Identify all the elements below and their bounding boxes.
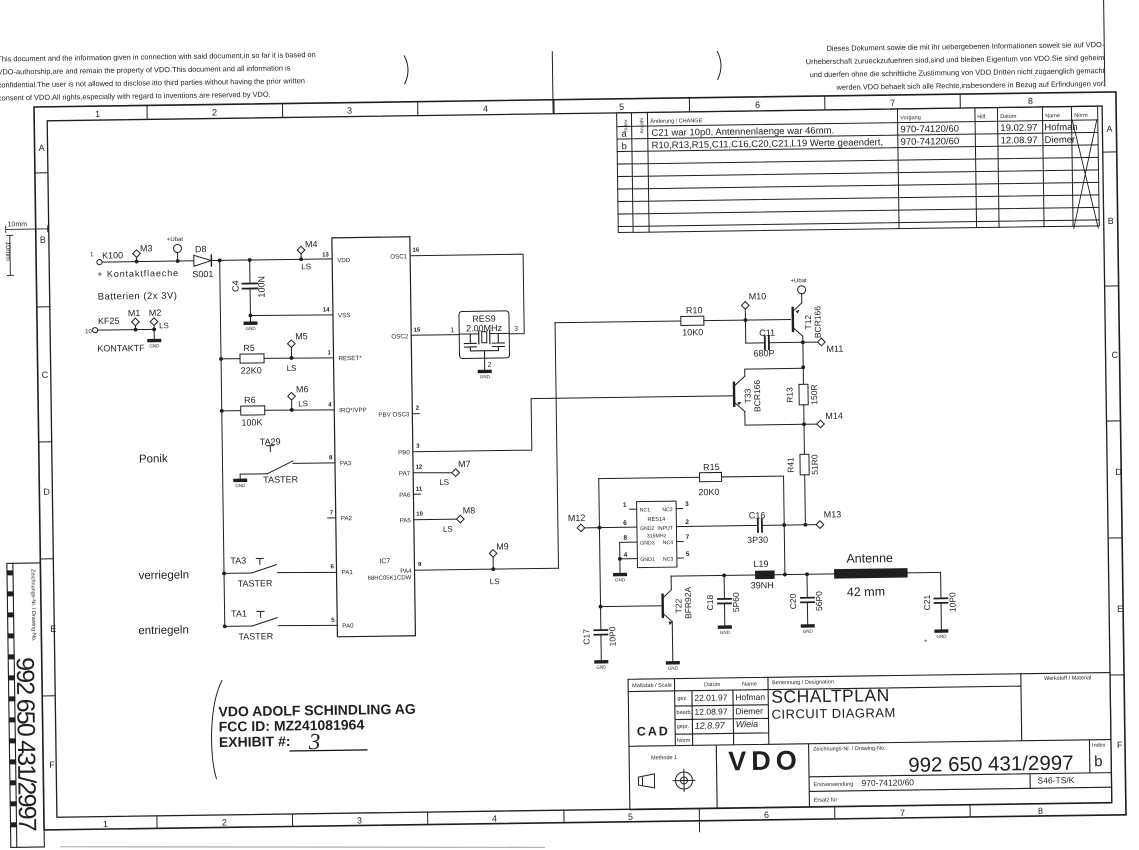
svg-text:R10,R13,R15,C11,C16,C20,C21,L1: R10,R13,R15,C11,C16,C20,C21,L19 Werte ge… — [652, 137, 884, 151]
svg-text:VSS: VSS — [338, 312, 350, 319]
REVISION TABLE — [617, 106, 1100, 235]
svg-text:R6: R6 — [244, 395, 256, 405]
test point M5 — [286, 331, 308, 373]
wire R10/PA4 riser — [555, 323, 558, 568]
svg-text:gepr.: gepr. — [677, 724, 690, 730]
registration mark right — [717, 51, 721, 79]
svg-text:Hofman: Hofman — [1044, 122, 1077, 133]
svg-text:Index: Index — [1092, 743, 1106, 749]
svg-text:GND: GND — [936, 634, 947, 639]
svg-text:3: 3 — [685, 501, 689, 508]
svg-text:IRQ*/VPP: IRQ*/VPP — [339, 407, 367, 414]
wire PB0 to T33 base — [412, 396, 730, 452]
svg-text:VDO: VDO — [728, 745, 802, 776]
svg-text:M6: M6 — [296, 384, 309, 394]
capacitor C16 — [676, 510, 816, 546]
svg-text:LS: LS — [301, 262, 311, 271]
capacitor C18 — [705, 573, 742, 625]
svg-text:TA1: TA1 — [231, 609, 247, 619]
svg-text:15: 15 — [414, 328, 421, 334]
fold mark top center — [551, 52, 554, 114]
svg-text:6: 6 — [330, 564, 334, 570]
svg-text:TA29: TA29 — [260, 437, 281, 447]
svg-text:SCHALTPLAN: SCHALTPLAN — [771, 685, 890, 707]
svg-text:1: 1 — [90, 252, 94, 258]
fold mark top right — [1104, 0, 1105, 86]
svg-text:3: 3 — [514, 326, 518, 333]
ground T22 — [666, 661, 680, 671]
svg-text:PA7: PA7 — [399, 470, 411, 477]
svg-text:LS: LS — [298, 399, 308, 408]
svg-text:10mm: 10mm — [8, 221, 28, 228]
svg-text:2: 2 — [416, 406, 420, 412]
svg-text:E: E — [1117, 604, 1123, 614]
svg-text:3P30: 3P30 — [747, 535, 768, 545]
test point M1 — [128, 308, 141, 332]
svg-text:Maßstab / Scale: Maßstab / Scale — [632, 683, 672, 690]
LEFT STRIP — [7, 563, 44, 847]
svg-text:Batterien (2x 3V): Batterien (2x 3V) — [98, 291, 178, 303]
svg-text:CIRCUIT DIAGRAM: CIRCUIT DIAGRAM — [771, 705, 895, 722]
svg-text:Zeichnungs-Nr. / Drawing-No.: Zeichnungs-Nr. / Drawing-No. — [813, 746, 886, 753]
svg-text:3: 3 — [357, 815, 362, 825]
svg-text:6: 6 — [623, 520, 627, 527]
svg-text:8: 8 — [329, 455, 333, 461]
svg-text:und duerfen ohne die schriftli: und duerfen ohne die schriftliche Zustim… — [810, 66, 1105, 79]
svg-text:Diemer: Diemer — [1044, 134, 1075, 145]
svg-text:M9: M9 — [496, 541, 509, 551]
svg-text:GND: GND — [596, 665, 607, 670]
svg-text:4: 4 — [624, 552, 628, 559]
svg-text:Ersatz für: Ersatz für — [814, 797, 838, 803]
svg-text:TASTER: TASTER — [238, 578, 273, 588]
svg-text:12.08.97: 12.08.97 — [1000, 135, 1037, 147]
test point M9 — [489, 541, 509, 586]
svg-text:10mm: 10mm — [4, 241, 11, 261]
svg-text:verriegeln: verriegeln — [138, 569, 189, 582]
svg-text:A: A — [1106, 124, 1112, 134]
svg-text:2: 2 — [685, 519, 689, 526]
svg-text:GND: GND — [235, 483, 246, 488]
svg-text:56P0: 56P0 — [814, 591, 824, 611]
svg-text:GND: GND — [149, 343, 160, 348]
svg-text:4: 4 — [483, 104, 488, 114]
svg-text:L19: L19 — [753, 559, 768, 569]
svg-text:LS: LS — [287, 364, 297, 373]
+Ubat T12 — [790, 278, 807, 294]
wire VDD net top — [102, 259, 332, 262]
svg-text:10P0: 10P0 — [947, 592, 957, 612]
svg-text:20K0: 20K0 — [698, 487, 719, 497]
10mm scale legend — [6, 226, 49, 276]
svg-text:14: 14 — [323, 307, 330, 313]
svg-text:PB0: PB0 — [398, 449, 410, 456]
svg-text:315MHz: 315MHz — [647, 533, 667, 539]
svg-text:19.02.97: 19.02.97 — [1000, 122, 1037, 134]
svg-text:Erstverwendung: Erstverwendung — [814, 782, 854, 789]
svg-text:gez.: gez. — [677, 696, 688, 702]
svg-text:4: 4 — [492, 814, 497, 824]
test point M6 — [288, 384, 309, 412]
svg-text:12.08.97: 12.08.97 — [694, 706, 727, 716]
resonator RES9 — [450, 311, 519, 369]
svg-text:12.8.97: 12.8.97 — [695, 720, 726, 730]
ground C18 — [718, 625, 732, 635]
svg-text:consent of VDO.All rights,espe: consent of VDO.All rights,especially wit… — [0, 90, 271, 103]
SAW resonator RES14 — [617, 501, 690, 573]
svg-text:C16: C16 — [749, 510, 766, 520]
svg-text:C4: C4 — [230, 280, 240, 292]
switch TA1 — [223, 607, 338, 642]
svg-text:Datum: Datum — [1000, 114, 1017, 120]
svg-text:1: 1 — [95, 109, 100, 119]
svg-text:Zeichnungs-Nr. / Drawing-No.: Zeichnungs-Nr. / Drawing-No. — [29, 569, 36, 642]
capacitor C11 — [745, 319, 803, 358]
svg-text:39NH: 39NH — [751, 580, 774, 590]
test point M13 — [816, 509, 842, 528]
svg-text:NC4: NC4 — [663, 540, 674, 546]
svg-text:R13: R13 — [784, 387, 794, 403]
svg-text:PBV OSC3: PBV OSC3 — [378, 411, 410, 418]
svg-text:Hofman: Hofman — [735, 692, 765, 702]
test point M11 — [801, 338, 843, 354]
svg-text:Urheberschaft zurueckzufuehren: Urheberschaft zurueckzufuehren sind,sind… — [806, 53, 1105, 66]
svg-text:8: 8 — [1028, 96, 1033, 106]
svg-text:C11: C11 — [759, 328, 775, 338]
pin stub PA6 — [413, 493, 420, 495]
test point M2 — [149, 308, 169, 332]
svg-text:M3: M3 — [140, 243, 153, 253]
svg-text:M12: M12 — [568, 513, 586, 523]
ground RES9 — [478, 358, 492, 379]
wire OSC1 — [410, 254, 524, 335]
svg-text:2: 2 — [212, 107, 217, 117]
svg-text:NC2: NC2 — [662, 507, 673, 513]
svg-text:werden.VDO behaelt sich alle R: werden.VDO behaelt sich alle Rechte,insb… — [835, 79, 1104, 92]
test point M12 — [568, 513, 602, 532]
svg-text:8: 8 — [623, 535, 627, 542]
svg-text:3: 3 — [416, 444, 420, 450]
svg-text:S46-TS/K: S46-TS/K — [1037, 775, 1074, 786]
wire PA7 / test point M7 — [413, 459, 471, 487]
capacitor C21 — [922, 572, 958, 629]
svg-text:10: 10 — [85, 329, 92, 335]
test point M4 — [297, 239, 318, 271]
svg-text:Antenne: Antenne — [846, 551, 893, 566]
svg-text:Hilf.: Hilf. — [977, 114, 987, 120]
svg-text:VDD: VDD — [337, 257, 351, 264]
svg-text:51R0: 51R0 — [809, 454, 819, 475]
svg-text:entriegeln: entriegeln — [138, 624, 189, 637]
svg-text:6: 6 — [764, 810, 769, 820]
transistor T22 BFR92A — [598, 576, 694, 662]
svg-text:Werkstoff / Material: Werkstoff / Material — [1044, 675, 1091, 682]
svg-text:PA6: PA6 — [399, 492, 411, 499]
resistor R6 — [220, 394, 335, 428]
capacitor C4 — [230, 258, 267, 316]
svg-text:C18: C18 — [705, 594, 715, 610]
svg-text:9: 9 — [418, 562, 422, 568]
svg-text:Wieia: Wieia — [736, 719, 759, 729]
svg-text:10K0: 10K0 — [682, 327, 703, 337]
ground KF25 — [147, 329, 161, 348]
svg-text:6: 6 — [755, 100, 760, 110]
svg-text:5: 5 — [686, 551, 690, 558]
svg-text:992 650 431/2997: 992 650 431/2997 — [11, 657, 41, 831]
wire T12 emitter to R13 — [801, 342, 805, 369]
ground C4 — [243, 315, 257, 331]
IC U1 microcontroller IC7 — [322, 237, 425, 637]
svg-text:M1: M1 — [128, 308, 141, 318]
svg-text:M8: M8 — [463, 505, 476, 515]
svg-text:M11: M11 — [826, 344, 843, 354]
svg-text:680P: 680P — [753, 348, 774, 358]
antenna bar 42mm — [834, 550, 941, 599]
svg-text:b: b — [622, 141, 627, 152]
FCC stamp block — [218, 701, 416, 750]
inductor L19 — [750, 558, 834, 591]
svg-text:1: 1 — [103, 819, 108, 829]
svg-text:Anzahl: Anzahl — [639, 118, 645, 133]
svg-text:8: 8 — [1038, 806, 1043, 816]
svg-text:GND: GND — [720, 630, 731, 635]
svg-text:R10: R10 — [686, 305, 703, 315]
terminal K100 — [90, 249, 179, 279]
svg-text:+Ubat: +Ubat — [167, 237, 184, 243]
switch TA29 — [240, 436, 336, 485]
svg-text:Methode 1: Methode 1 — [651, 755, 677, 761]
pin stub PBVOSC3 — [412, 413, 419, 415]
svg-text:bearb.: bearb. — [676, 710, 692, 716]
svg-text:PA4: PA4 — [400, 568, 412, 575]
svg-text:F: F — [1117, 740, 1123, 750]
svg-text:LS: LS — [443, 525, 453, 534]
transistor T12 BCR166 — [792, 294, 822, 343]
svg-text:E: E — [50, 624, 56, 634]
svg-text:12: 12 — [416, 465, 423, 471]
svg-text:22.01.97: 22.01.97 — [694, 692, 727, 702]
svg-text:D8: D8 — [195, 244, 207, 254]
svg-text:This document and the informat: This document and the information given … — [0, 50, 316, 63]
wire M12 to RES14 — [599, 526, 636, 529]
svg-text:Ponik: Ponik — [139, 453, 168, 465]
svg-text:RES14: RES14 — [647, 517, 665, 523]
svg-text:M7: M7 — [458, 459, 471, 469]
svg-text:PA0: PA0 — [342, 623, 354, 630]
svg-text:M10: M10 — [749, 291, 767, 301]
svg-text:1: 1 — [623, 502, 627, 509]
svg-text:GND: GND — [668, 666, 679, 671]
svg-text:16: 16 — [413, 248, 420, 254]
svg-text:992 650 431/2997: 992 650 431/2997 — [908, 752, 1074, 777]
svg-text:INPUT: INPUT — [657, 526, 673, 532]
svg-text:KF25: KF25 — [98, 316, 120, 326]
projection method symbol — [638, 769, 695, 792]
svg-text:22K0: 22K0 — [241, 365, 262, 375]
svg-text:OSC2: OSC2 — [391, 333, 409, 340]
svg-text:VDO-authorship,are and remain: VDO-authorship,are and remain the proper… — [0, 63, 291, 76]
svg-text:C17: C17 — [581, 629, 591, 645]
svg-text:2: 2 — [222, 817, 227, 827]
svg-text:F: F — [49, 760, 55, 770]
svg-text:a: a — [621, 129, 627, 140]
resistor R15 — [599, 461, 785, 528]
svg-text:13: 13 — [322, 252, 329, 258]
svg-text:NC3: NC3 — [663, 557, 674, 563]
svg-text:970-74120/60: 970-74120/60 — [900, 124, 959, 136]
svg-text:C21: C21 — [922, 594, 932, 610]
fold mark bottom center — [698, 821, 700, 832]
svg-text:100N: 100N — [256, 276, 266, 298]
svg-text:2: 2 — [488, 362, 492, 369]
svg-text:BFR92A: BFR92A — [683, 586, 693, 619]
svg-text:FCC ID: MZ241081964: FCC ID: MZ241081964 — [219, 716, 365, 734]
wire VSS — [249, 312, 333, 317]
svg-text:TASTER: TASTER — [263, 474, 298, 484]
svg-text:5P60: 5P60 — [731, 592, 741, 612]
svg-text:OSC1: OSC1 — [390, 253, 408, 260]
svg-text:PA5: PA5 — [400, 517, 412, 524]
svg-text:GND: GND — [246, 326, 257, 331]
svg-text:A: A — [39, 143, 45, 153]
svg-text:5: 5 — [331, 618, 335, 624]
svg-text:5: 5 — [619, 102, 624, 112]
svg-text:EXHIBIT #:: EXHIBIT #: — [219, 733, 291, 750]
resistor R13 — [784, 367, 819, 424]
svg-text:Änderung / CHANGE: Änderung / CHANGE — [650, 117, 702, 125]
svg-text:LS: LS — [159, 321, 169, 330]
svg-text:GND3: GND3 — [640, 540, 655, 546]
svg-text:10P0: 10P0 — [607, 626, 617, 646]
svg-text:7: 7 — [330, 510, 334, 516]
wire R15 left riser — [599, 479, 601, 630]
registration mark left — [404, 56, 408, 84]
svg-text:M2: M2 — [149, 308, 162, 318]
bracket mark — [211, 680, 224, 778]
svg-text:Vorgang: Vorgang — [900, 115, 921, 121]
svg-text:10: 10 — [416, 512, 423, 518]
ground C17 — [594, 660, 608, 670]
svg-text:4: 4 — [328, 402, 332, 408]
test point M10 — [741, 291, 766, 322]
svg-text:970-74120/60: 970-74120/60 — [901, 136, 960, 148]
svg-text:R5: R5 — [243, 343, 255, 353]
svg-text:confidential.The user is not a: confidential.The user is not allowed to … — [0, 76, 305, 89]
+Ubat symbol — [167, 237, 184, 263]
svg-text:LS: LS — [439, 478, 449, 487]
svg-text:M13: M13 — [824, 509, 842, 519]
ground RES14 — [613, 573, 627, 583]
svg-text:RESET*: RESET* — [338, 355, 362, 362]
svg-text:Name: Name — [1045, 113, 1060, 119]
svg-text:GND: GND — [480, 374, 491, 379]
svg-text:GND2: GND2 — [640, 526, 655, 532]
wire bias vertical — [218, 258, 227, 626]
wire OSC2 — [411, 334, 459, 337]
svg-text:KONTAKTF: KONTAKTF — [97, 343, 145, 354]
svg-text:68HC05K1CDW: 68HC05K1CDW — [368, 575, 412, 582]
capacitor C20 — [788, 572, 825, 624]
svg-text:LS: LS — [490, 577, 500, 586]
wire PA5 / test point M8 — [414, 505, 476, 534]
pin stub PA2 — [328, 517, 336, 519]
svg-text:B: B — [40, 235, 46, 245]
svg-text:Norm: Norm — [1074, 113, 1088, 119]
svg-text:Dieses Dokument sowie die mit: Dieses Dokument sowie die mit ihr ueberg… — [826, 40, 1104, 53]
svg-text:M5: M5 — [295, 331, 308, 341]
ground C20 — [801, 624, 815, 634]
svg-text:C: C — [42, 370, 49, 380]
svg-text:Diemer: Diemer — [735, 706, 763, 716]
svg-text:GND: GND — [615, 577, 626, 582]
svg-text:R41: R41 — [785, 457, 795, 473]
resistor R5 — [219, 342, 334, 376]
ground TA29 — [233, 474, 247, 488]
svg-text:BCR166: BCR166 — [812, 306, 822, 339]
resistor R41 — [785, 424, 820, 525]
svg-text:970-74120/60: 970-74120/60 — [861, 777, 914, 788]
svg-text:B: B — [1108, 216, 1114, 226]
svg-text:1: 1 — [450, 327, 454, 334]
transistor T33 BCR166 — [729, 368, 804, 425]
svg-text:7: 7 — [890, 98, 895, 108]
svg-text:Datum: Datum — [704, 682, 721, 688]
svg-text:5: 5 — [628, 812, 633, 822]
svg-text:D: D — [43, 487, 50, 497]
svg-text:+ Kontaktflaeche: + Kontaktflaeche — [97, 268, 179, 279]
svg-text:PA2: PA2 — [341, 515, 353, 522]
svg-text:IC7: IC7 — [379, 558, 390, 565]
svg-text:PA1: PA1 — [341, 569, 353, 576]
junction node riser/antenna — [783, 573, 787, 577]
svg-text:GND1: GND1 — [640, 557, 655, 563]
svg-text:7: 7 — [686, 534, 690, 541]
svg-text:1: 1 — [327, 350, 331, 356]
svg-text:CAD: CAD — [637, 724, 670, 738]
wire PA4 — [415, 568, 559, 570]
svg-text:Norm: Norm — [677, 738, 691, 744]
svg-text:b: b — [1094, 753, 1103, 770]
svg-text:NC1: NC1 — [640, 507, 651, 513]
diode D8 — [192, 244, 214, 279]
svg-text:R15: R15 — [703, 462, 720, 472]
TITLE BLOCK — [628, 673, 1112, 810]
test point M3 — [133, 243, 153, 263]
svg-text:150R: 150R — [809, 384, 819, 404]
svg-text:+Ubat: +Ubat — [790, 278, 807, 284]
capacitor C17 — [581, 626, 617, 660]
svg-text:S001: S001 — [192, 269, 213, 279]
svg-text:7: 7 — [900, 808, 905, 818]
svg-text:TASTER: TASTER — [238, 631, 273, 641]
svg-text:M4: M4 — [305, 239, 318, 249]
svg-text:3: 3 — [347, 106, 352, 116]
svg-text:C: C — [1111, 350, 1118, 360]
svg-text:PA3: PA3 — [340, 460, 352, 467]
svg-text:42 mm: 42 mm — [847, 585, 885, 600]
svg-text:BCR166: BCR166 — [752, 380, 762, 413]
svg-text:M14: M14 — [825, 411, 843, 421]
svg-text:Name: Name — [742, 681, 757, 687]
svg-text:C20: C20 — [788, 593, 798, 609]
disclaimer text german — [806, 40, 1106, 92]
svg-text:11: 11 — [416, 487, 423, 493]
ground C21 — [934, 629, 948, 639]
svg-text:K100: K100 — [102, 250, 123, 260]
terminal KF25 — [85, 315, 155, 353]
svg-text:GND: GND — [803, 629, 814, 634]
resistor R10 — [555, 304, 791, 339]
